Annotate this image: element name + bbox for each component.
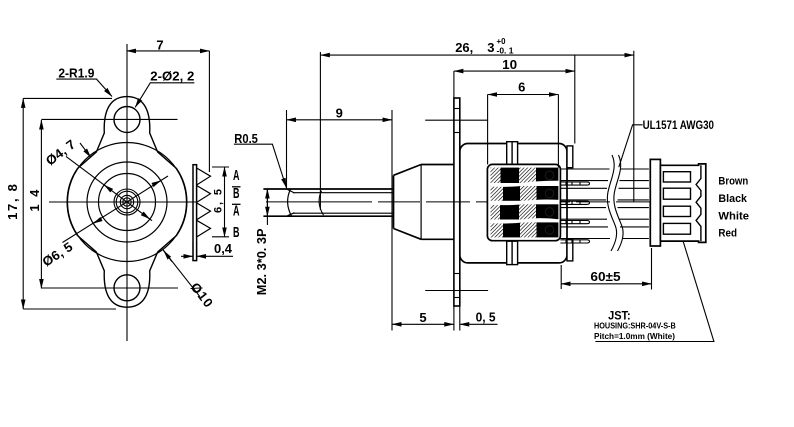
row 3 [491, 204, 559, 219]
tooth 2 [197, 186, 211, 203]
wire band through block 2 [490, 201, 560, 204]
svg-text:Brown: Brown [718, 176, 748, 188]
pin strip 4 [560, 240, 589, 243]
dim 10 ext left [453, 71, 455, 98]
svg-text:B: B [233, 185, 240, 202]
circle D6.5 [87, 162, 167, 242]
dim 14 ext lines [41, 118, 177, 120]
top mounting hole [114, 107, 140, 133]
pin strip 1 [560, 182, 589, 185]
svg-text:2-Ø2, 2: 2-Ø2, 2 [150, 69, 194, 84]
body top tab [507, 142, 518, 165]
dim M2.3 line [266, 189, 268, 225]
tooth 1 [197, 168, 211, 185]
cable break S-curve right [614, 155, 623, 251]
svg-text:Black: Black [718, 193, 747, 205]
pin strip 3 [560, 221, 589, 224]
dim 17.8 line [22, 98, 24, 309]
dim 26.3 line [320, 54, 633, 56]
svg-text:Red: Red [718, 228, 737, 240]
svg-text:3: 3 [487, 40, 494, 55]
shaft thread root top [293, 192, 394, 194]
front view horizontal center line [49, 201, 198, 203]
shaft rounded tip [288, 189, 295, 216]
svg-text:26,: 26, [455, 40, 473, 55]
wire 2 [560, 188, 649, 200]
svg-text:White: White [718, 210, 749, 222]
shaft tip circle [123, 198, 131, 206]
boss bottom edge [421, 238, 454, 240]
plate hole hidden lines bottom [454, 273, 460, 275]
bottom mounting hole [114, 275, 140, 301]
shaft thread root bottom [293, 212, 394, 214]
dim 10 ext right [574, 55, 576, 143]
motor can circle D10 [68, 143, 187, 262]
dim 0.4 ext lines [192, 242, 194, 260]
cable break S-curve left [607, 155, 616, 251]
cone small end face [393, 175, 395, 228]
svg-text:10: 10 [502, 57, 517, 72]
mounting plate strip [193, 165, 197, 261]
svg-text:M2. 3*0. 3P: M2. 3*0. 3P [254, 228, 269, 295]
plate hole hidden lines top [454, 108, 460, 110]
leader R0.5 [234, 144, 286, 187]
svg-text:R0.5: R0.5 [234, 131, 258, 146]
svg-text:2-R1.9: 2-R1.9 [58, 66, 94, 81]
boss top edge [421, 164, 454, 166]
dim 14 line [40, 120, 42, 289]
dim 6 ext right [557, 95, 559, 168]
dim 60 ext right [651, 248, 653, 290]
thread runout arc [319, 191, 323, 216]
svg-text:A: A [233, 167, 240, 184]
dim 6.5 ext lines [212, 166, 229, 168]
dim 6 ext left [487, 95, 489, 165]
svg-text:HOUSING:SHR-04V-S-B: HOUSING:SHR-04V-S-B [594, 322, 676, 331]
dim 7 line [127, 50, 210, 52]
hub circle [116, 191, 138, 213]
hole center line top [425, 119, 488, 121]
body right bottom tab [567, 239, 573, 261]
motor body [460, 144, 567, 263]
dim 7 extension line right [208, 51, 210, 172]
leader JST [595, 241, 714, 341]
leader 2-D2.2 [135, 83, 194, 108]
dim 60 ext left [560, 265, 562, 289]
svg-text:7: 7 [156, 37, 163, 52]
hub circle outer [114, 189, 140, 215]
cone top slant [394, 165, 422, 176]
dim 26.3 ext right [633, 51, 635, 202]
wire 3 [560, 208, 649, 220]
dim 0.4 arrows outside [181, 255, 193, 257]
diameter line D4.7 [66, 156, 152, 220]
plate ext lines down [453, 306, 455, 331]
row 1 [491, 168, 559, 183]
housing castellated edge [696, 165, 701, 241]
svg-text:0, 5: 0, 5 [476, 310, 496, 325]
tooth 3 [197, 203, 211, 220]
svg-text:0,4: 0,4 [214, 241, 233, 256]
dim 26.3 ext left [319, 52, 321, 210]
wire 1 [560, 169, 649, 181]
dim 9 line [287, 119, 393, 121]
svg-text:60±5: 60±5 [590, 269, 620, 284]
dim 60 line [561, 283, 651, 285]
wire band through block 1 [490, 182, 560, 185]
diameter line D10 with outside arrows [80, 143, 91, 157]
side view center line [266, 201, 658, 203]
svg-text:Pitch=1.0mm (White): Pitch=1.0mm (White) [594, 332, 675, 341]
svg-text:JST:: JST: [608, 309, 631, 323]
dim 6 line [488, 94, 559, 96]
svg-text:17, 8: 17, 8 [5, 184, 20, 220]
terminal pin circles [545, 171, 554, 234]
svg-text:UL1571 AWG30: UL1571 AWG30 [643, 120, 714, 132]
dim 17.8 ext lines [23, 97, 112, 99]
row 2 [491, 186, 559, 201]
row 4 [491, 222, 559, 237]
svg-text:-0. 1: -0. 1 [497, 45, 514, 55]
leader 2-R1.9 [56, 79, 112, 96]
front view vertical center line [126, 44, 128, 341]
diameter line D6.5 [63, 176, 169, 243]
connector housing body [660, 164, 705, 243]
svg-text:5: 5 [419, 310, 426, 325]
svg-text:6, 5: 6, 5 [213, 189, 225, 213]
pin strip 2 [560, 201, 589, 204]
housing slot 4 [663, 223, 690, 234]
svg-text:A: A [233, 203, 240, 220]
dim 10 line [454, 70, 575, 72]
svg-text:6: 6 [518, 80, 525, 95]
tooth 4 [197, 220, 211, 237]
mounting plate side [454, 98, 460, 306]
housing slot 2 [663, 188, 690, 199]
svg-text:B: B [233, 224, 240, 241]
shaft circle [120, 195, 133, 208]
body right top tab [567, 146, 573, 168]
connector retainer plate [650, 159, 660, 246]
leader UL1571 [619, 125, 643, 167]
dim 0.5 arrow and tail [460, 323, 498, 325]
wire 4 [560, 227, 649, 239]
shaft outer bottom line [263, 215, 393, 217]
terminal block outline [487, 164, 560, 240]
dim 6.5 line [224, 167, 226, 237]
wire band through block 3 [490, 220, 560, 222]
housing slot 1 [663, 172, 690, 182]
dim 9 ext left [286, 110, 288, 189]
body bottom tab [507, 241, 518, 264]
hole center line bottom [425, 290, 488, 292]
dim 5 line [392, 323, 454, 325]
svg-text:9: 9 [336, 106, 343, 121]
boss junction vertical [420, 165, 422, 240]
circle D4.7 [99, 174, 156, 231]
housing slot 3 [663, 206, 690, 216]
dim 9 ext right / dim 5 left [391, 110, 393, 331]
flange outline [67, 97, 187, 308]
shaft outer top line [263, 188, 393, 190]
cone bottom slant [394, 229, 422, 240]
